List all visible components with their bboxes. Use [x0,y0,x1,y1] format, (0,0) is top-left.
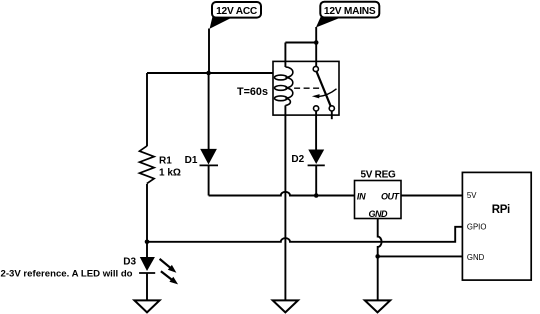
svg-text:1 kΩ: 1 kΩ [159,168,181,179]
svg-text:RPi: RPi [492,204,510,216]
svg-text:5V REG: 5V REG [361,169,396,180]
svg-text:12V MAINS: 12V MAINS [324,6,376,17]
svg-text:OUT: OUT [381,192,401,202]
svg-text:12V ACC: 12V ACC [216,6,258,17]
svg-text:D3: D3 [123,256,136,267]
svg-text:D1: D1 [185,155,198,166]
svg-text:2-3V reference. A LED will do: 2-3V reference. A LED will do [1,268,133,279]
svg-text:T=60s: T=60s [237,86,268,98]
svg-text:5V: 5V [467,191,477,200]
svg-text:IN: IN [357,192,366,202]
svg-text:GPIO: GPIO [467,223,487,232]
svg-text:GND: GND [369,209,389,219]
svg-text:D2: D2 [291,154,304,165]
svg-text:GND: GND [467,253,485,262]
svg-text:R1: R1 [159,155,172,166]
